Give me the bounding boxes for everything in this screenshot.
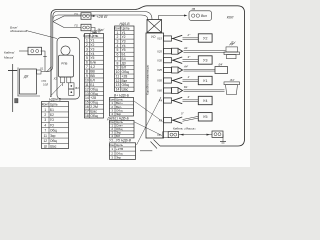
svg-text:У5: У5 <box>203 115 208 119</box>
svg-text:НД6-В: НД6-В <box>119 22 130 26</box>
connector Х25 pin row <box>156 46 225 54</box>
svg-text:10: 10 <box>85 78 89 82</box>
svg-text:У5: У5 <box>90 56 94 60</box>
svg-text:Цепь: Цепь <box>90 34 98 38</box>
svg-text:Б2: Б2 <box>50 113 54 117</box>
svg-text:6: 6 <box>86 61 88 65</box>
svg-text:1: 1 <box>86 38 88 42</box>
svg-text:БЛ: БЛ <box>90 78 94 82</box>
svg-text:4': 4' <box>188 95 191 99</box>
svg-text:Кабель «Масса»: Кабель «Масса» <box>173 126 196 130</box>
leader from table НД04-Б to X2 <box>50 85 62 97</box>
svg-text:1: 1 <box>44 108 46 112</box>
svg-text:9: 9 <box>86 74 88 78</box>
svg-text:У2: У2 <box>90 43 94 47</box>
switch box Вкл <box>189 7 212 21</box>
svg-text:НД6-В: НД6-В <box>90 29 101 33</box>
svg-text:Общ: Общ <box>90 114 98 118</box>
svg-text:4: 4 <box>111 134 113 138</box>
connector Х35 pin row <box>156 55 198 64</box>
device РПВ <box>59 46 74 83</box>
block ДК <box>18 68 41 97</box>
svg-text:4,2: 4,2 <box>90 65 95 69</box>
device Б1' (cap with flange) <box>224 78 240 95</box>
svg-text:Х2: Х2 <box>53 77 58 81</box>
svg-text:У1: У1 <box>90 38 94 42</box>
svg-text:Общ: Общ <box>90 101 98 105</box>
svg-text:У2: У2 <box>203 36 208 40</box>
wire: vertical from connector X1 up to junction <box>52 16 54 66</box>
svg-text:Х15: Х15 <box>156 37 162 41</box>
leader lines from tables to block connectors <box>134 97 163 145</box>
svg-text:2: 2 <box>44 113 46 117</box>
svg-text:Коробка коммутации: Коробка коммутации <box>146 64 150 95</box>
device Б4' <box>215 63 228 74</box>
svg-text:Б1: Б1 <box>50 108 54 112</box>
svg-text:0,5Л: 0,5Л <box>43 83 48 86</box>
connector table НД6-В (left) <box>83 29 103 118</box>
connector Х5 pin row <box>158 112 199 124</box>
balun/switch symbol (crossed box) on top of block <box>147 20 162 33</box>
svg-text:2: 2 <box>86 43 88 47</box>
svg-text:Шас: Шас <box>90 110 97 114</box>
filter P1 (feed-through, +28V line) <box>75 12 108 19</box>
svg-text:16: 16 <box>85 105 89 109</box>
device Д3' (plug with flange) <box>224 42 240 59</box>
svg-text:4: 4 <box>44 123 46 127</box>
svg-text:Общ: Общ <box>50 139 57 143</box>
svg-text:Конт: Конт <box>42 103 49 107</box>
svg-text:3: 3 <box>86 47 88 51</box>
svg-text:2,2М: 2,2М <box>90 105 98 109</box>
svg-text:14: 14 <box>116 88 120 92</box>
connector Х55 pin row <box>156 75 198 84</box>
connector Х15 pin row <box>156 33 198 42</box>
svg-text:Цепь: Цепь <box>50 103 58 107</box>
svg-text:П1: П1 <box>75 12 79 16</box>
block Коробка коммутации (switching box) <box>146 33 164 138</box>
svg-text:14: 14 <box>85 96 89 100</box>
svg-text:У1...У5 НД6-В: У1...У5 НД6-В <box>109 139 132 143</box>
svg-text:Общ: Общ <box>50 129 57 133</box>
svg-text:обозначения: обозначения <box>10 29 27 33</box>
svg-text:Масса': Масса' <box>4 56 14 60</box>
connector Х65 pin row <box>156 85 224 93</box>
unit У5 <box>198 113 212 121</box>
svg-text:Х55: Х55 <box>156 79 162 83</box>
filter F3 cable «Масса» grounding (left) <box>19 47 52 72</box>
svg-text:У3: У3 <box>90 47 94 51</box>
svg-text:К0Л: К0Л <box>227 16 234 20</box>
svg-text:У4: У4 <box>90 52 94 56</box>
connector Х45 pin row <box>156 65 215 73</box>
svg-text:7: 7 <box>44 129 46 133</box>
svg-text:ВВ: ВВ <box>90 74 95 78</box>
connector Х4 pin row <box>158 95 199 104</box>
svg-text:Экр: Экр <box>50 134 56 138</box>
connector table Д4(Б1) НД6-Б <box>106 116 134 138</box>
svg-text:ГО: ГО <box>50 118 55 122</box>
wire: branch to filter P1 (+28V) <box>53 16 81 22</box>
annotation ГО 0,5Л <box>41 80 48 86</box>
svg-text:5": 5" <box>181 112 185 116</box>
svg-text:.Б1': .Б1' <box>230 78 235 82</box>
svg-text:12: 12 <box>85 87 89 91</box>
connector Х6 row: cable «Масса» shield bond <box>156 126 226 143</box>
antenna mast symbol (far left) <box>8 64 17 112</box>
svg-text:Х5: Х5 <box>158 118 163 122</box>
svg-text:11: 11 <box>85 83 89 87</box>
unit У4 <box>198 96 212 104</box>
connector table В+ НД6-Б <box>109 93 133 116</box>
svg-text:3": 3" <box>188 55 192 59</box>
svg-text:Ф1: Ф1 <box>75 86 79 90</box>
annotation: Блок обозначения with leader to inner block <box>10 26 57 39</box>
filter P2 (feed-through, chassis return) <box>75 24 105 33</box>
svg-text:7: 7 <box>86 65 88 69</box>
svg-text:8: 8 <box>86 70 88 74</box>
svg-text:4: 4 <box>86 52 88 56</box>
svg-text:5: 5 <box>86 56 88 60</box>
enclosure outline: коробка (main unit boundary, rounded, with break at bottom-left) <box>51 6 245 151</box>
unit У1 <box>198 76 212 84</box>
svg-text:ГО: ГО <box>50 123 55 127</box>
svg-text:1': 1' <box>188 75 191 79</box>
unit У2 <box>198 34 212 42</box>
connector table У1...У5 НД6-В <box>109 139 136 160</box>
connector table НД6-В (right) <box>114 22 134 92</box>
svg-text:А1': А1' <box>183 46 189 50</box>
svg-text:Б4': Б4' <box>219 63 224 67</box>
svg-text:У1: У1 <box>203 79 208 83</box>
svg-text:Ш: Ш <box>44 144 47 148</box>
svg-text:3: 3 <box>111 155 113 159</box>
svg-text:+28: +28 <box>90 96 96 100</box>
svg-text:Х65: Х65 <box>156 89 162 93</box>
svg-text:А4': А4' <box>183 65 189 69</box>
svg-text:УО: УО <box>151 35 156 39</box>
svg-text:Общ: Общ <box>90 87 98 91</box>
svg-text:БЛ: БЛ <box>116 134 120 138</box>
svg-text:3: 3 <box>44 118 46 122</box>
svg-text:У4: У4 <box>203 99 208 103</box>
svg-text:Вкл: Вкл <box>201 14 207 18</box>
svg-text:Общ: Общ <box>90 92 98 96</box>
connector X1 on ДК <box>37 67 44 74</box>
svg-text:17: 17 <box>85 110 89 114</box>
svg-text:Шас: Шас <box>122 88 129 92</box>
wire: branch to filter P2 (Massa) <box>53 22 81 28</box>
svg-text:Экр: Экр <box>116 155 121 159</box>
svg-text:Х45: Х45 <box>156 68 162 72</box>
svg-text:НД04-Б: НД04-Б <box>49 97 62 101</box>
svg-text:18: 18 <box>85 114 89 118</box>
svg-text:Кабель': Кабель' <box>4 51 15 55</box>
svg-text:ДК: ДК <box>23 75 29 79</box>
svg-text:+28 В': +28 В' <box>96 14 108 19</box>
svg-text:УВ: УВ <box>192 7 196 11</box>
svg-text:15: 15 <box>85 101 89 105</box>
svg-text:Б1: Б1 <box>90 83 94 87</box>
wire with arrow to switch Вкл <box>159 15 188 20</box>
svg-text:ВВ: ВВ <box>90 70 95 74</box>
svg-text:2": 2" <box>187 33 192 37</box>
svg-text:РПВ: РПВ <box>61 62 67 66</box>
svg-text:12: 12 <box>43 139 47 143</box>
svg-text:13: 13 <box>85 92 89 96</box>
connector table НД04-Б <box>42 97 69 148</box>
wire: +28V pair from junction to switch box along top <box>53 12 152 21</box>
svg-text:Х25: Х25 <box>156 49 162 53</box>
svg-text:Х35: Х35 <box>156 58 162 62</box>
svg-text:П2: П2 <box>75 24 79 28</box>
node: small connector blob on mast <box>15 99 18 103</box>
inner block boundary (РПВ unit) <box>57 38 80 100</box>
svg-text:Шас: Шас <box>50 144 57 148</box>
svg-text:Блк: Блк <box>90 61 96 65</box>
svg-text:11: 11 <box>44 134 48 138</box>
svg-text:Б1': Б1' <box>184 85 188 89</box>
annotation: Кабель «Масса» (left) <box>4 51 15 60</box>
connector X2 of РПВ <box>53 77 63 87</box>
svg-text:У3: У3 <box>203 58 208 62</box>
connector/filter Ф1 stack <box>69 83 80 96</box>
unit У3 <box>198 56 212 64</box>
svg-text:Д3': Д3' <box>229 42 235 46</box>
